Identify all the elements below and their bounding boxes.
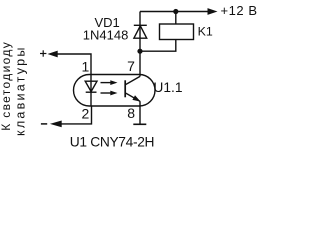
terminal - sign xyxy=(41,123,47,125)
svg-text:8: 8 xyxy=(127,105,135,121)
wire: +12V top rail xyxy=(140,11,208,13)
relay coil K1 xyxy=(160,24,194,40)
terminal + sign xyxy=(40,50,46,56)
op-amp U1 body (optocoupler stadium) xyxy=(74,75,156,107)
wire: plus input lead xyxy=(58,54,92,75)
wire: K1 coil bottom to node B xyxy=(140,40,176,52)
node arrow +12V xyxy=(208,8,218,15)
svg-text:U1.1: U1.1 xyxy=(153,80,182,95)
junction dot node A xyxy=(173,9,178,14)
svg-text:К светодиоду: К светодиоду xyxy=(0,41,13,131)
terminal arrow minus xyxy=(50,121,62,128)
terminal arrow plus xyxy=(48,51,58,58)
light arrow lower xyxy=(101,91,118,96)
wire: emitter to ground xyxy=(139,101,141,124)
junction dot node B xyxy=(137,49,142,54)
node label K svetodiodu klaviatury (rotated) xyxy=(0,41,27,136)
transistor U1.1 phototransistor xyxy=(125,76,140,101)
wire: diode/pin7 vertical xyxy=(139,12,141,77)
LED inside U1 xyxy=(85,75,97,107)
light arrow upper xyxy=(101,80,118,85)
svg-text:7: 7 xyxy=(127,58,135,74)
svg-text:U1 CNY74-2H: U1 CNY74-2H xyxy=(70,134,154,149)
wire: minus input lead xyxy=(62,106,92,124)
svg-text:K1: K1 xyxy=(198,25,213,39)
svg-text:+12 В: +12 В xyxy=(221,3,258,18)
diode VD1 xyxy=(134,25,147,38)
ground xyxy=(133,123,146,125)
svg-text:2: 2 xyxy=(82,106,90,122)
svg-text:клавиатуры: клавиатуры xyxy=(13,45,27,136)
wire: top rail to K1 coil xyxy=(175,12,177,25)
svg-text:1: 1 xyxy=(82,59,90,75)
svg-text:1N4148: 1N4148 xyxy=(83,27,129,42)
